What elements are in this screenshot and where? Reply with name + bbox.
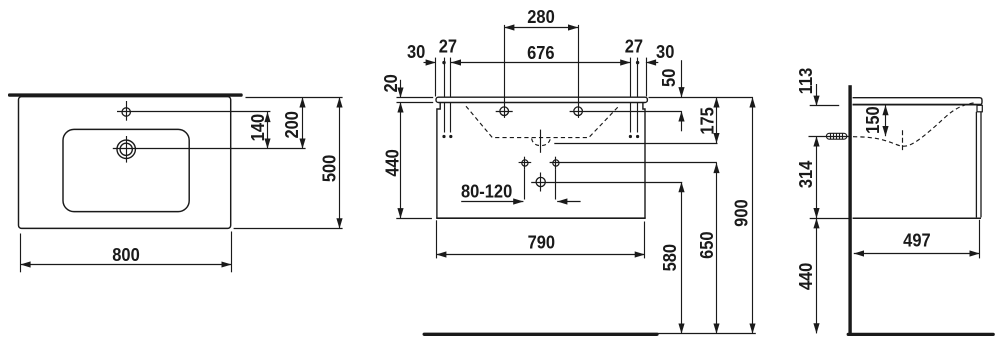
svg-text:140: 140 (247, 114, 268, 141)
svg-text:30: 30 (407, 41, 425, 62)
svg-text:440: 440 (795, 263, 816, 290)
svg-text:314: 314 (795, 160, 816, 188)
svg-text:800: 800 (112, 244, 139, 265)
svg-text:200: 200 (281, 111, 302, 138)
svg-text:676: 676 (527, 42, 555, 63)
svg-text:80-120: 80-120 (461, 181, 512, 202)
svg-text:280: 280 (527, 6, 554, 27)
svg-text:150: 150 (862, 106, 883, 133)
svg-text:440: 440 (382, 149, 403, 176)
svg-text:20: 20 (380, 74, 401, 92)
svg-text:30: 30 (656, 41, 674, 62)
svg-text:790: 790 (528, 232, 555, 253)
svg-text:900: 900 (731, 199, 752, 226)
svg-text:50: 50 (658, 69, 679, 87)
svg-text:27: 27 (439, 36, 457, 57)
svg-text:650: 650 (696, 231, 717, 258)
svg-text:27: 27 (625, 36, 643, 57)
svg-text:500: 500 (319, 155, 340, 182)
svg-text:175: 175 (697, 107, 718, 135)
svg-text:497: 497 (903, 230, 930, 251)
svg-text:113: 113 (795, 67, 816, 94)
svg-text:580: 580 (659, 244, 680, 271)
